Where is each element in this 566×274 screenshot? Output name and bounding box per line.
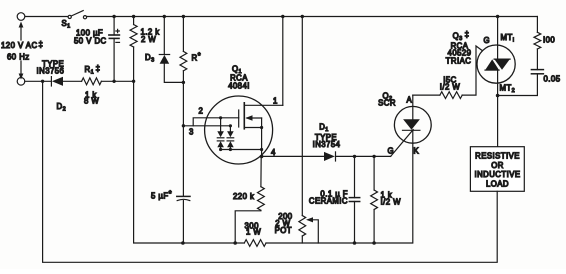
diode D1 TYPE IN3754 bbox=[324, 152, 391, 161]
label: 100uF 50 V DC bbox=[74, 29, 107, 46]
svg-text:SCR: SCR bbox=[378, 99, 396, 108]
svg-text:I/2 W: I/2 W bbox=[440, 83, 461, 92]
wire: load to bottom return rail bbox=[43, 81, 498, 262]
svg-text:RESISTIVE: RESISTIVE bbox=[475, 152, 520, 161]
capacitor 0.05 (snubber) bbox=[498, 70, 544, 96]
wire: pin 1 riser to DC+ rail bbox=[282, 17, 284, 106]
transistor Q3 RCA 40529 TRIAC circle bbox=[477, 45, 515, 83]
svg-text:TRIAC: TRIAC bbox=[446, 57, 472, 66]
node: source tap junction bbox=[260, 126, 263, 129]
diode D2 TYPE IN3756 bbox=[51, 77, 81, 86]
svg-text:220 k: 220 k bbox=[233, 192, 254, 201]
node: pin2/3 takeoff junction bbox=[182, 124, 185, 127]
label: R* bbox=[192, 52, 202, 63]
wire: rail-to-pot riser (crosses source wire) bbox=[301, 17, 303, 216]
wire: top AC wire from terminal to switch bbox=[25, 16, 68, 18]
svg-text:LOAD: LOAD bbox=[486, 179, 509, 188]
transistor Q1 channel bar bbox=[243, 103, 245, 129]
transistor Q2 SCR symbol bbox=[391, 95, 420, 243]
label: 300 1W bbox=[245, 222, 262, 237]
label: 220k bbox=[233, 192, 254, 201]
node: 0.1uF and 1k junctions on gate wire bbox=[353, 155, 376, 158]
wire: Q1 source wire (pin 4) to D1 bbox=[262, 155, 324, 157]
svg-text:0.05: 0.05 bbox=[544, 75, 561, 84]
label: 1k 1/2W bbox=[381, 191, 402, 207]
label: D2 bbox=[57, 102, 67, 113]
node: rail junction dots bbox=[112, 15, 499, 18]
transistor Q1 substrate arrow bbox=[245, 115, 261, 120]
svg-text:POT: POT bbox=[275, 226, 292, 235]
wire: 150 ohm to triac gate bbox=[462, 46, 482, 95]
svg-text:K: K bbox=[414, 147, 420, 156]
wire: top DC+ rail bbox=[87, 16, 538, 18]
label: 0.1uF CERAMIC bbox=[309, 190, 348, 206]
label: 150 1/2W bbox=[440, 76, 461, 92]
label: MT2 bbox=[500, 84, 516, 95]
label: D3 bbox=[145, 53, 155, 64]
svg-text:I00: I00 bbox=[543, 36, 555, 45]
node: gate-node top junction bbox=[182, 81, 185, 84]
svg-text:CERAMIC: CERAMIC bbox=[309, 197, 348, 206]
label: TYPE IN3756 (D2) bbox=[37, 60, 65, 76]
wire: DC- rail after R1 bbox=[101, 80, 133, 82]
resistor 300 1W (in bus) bbox=[244, 240, 266, 247]
svg-text:MTI: MTI bbox=[501, 33, 515, 44]
svg-text:3: 3 bbox=[189, 128, 194, 137]
svg-text:G: G bbox=[484, 36, 491, 45]
label: Q1 RCA 40841 bbox=[228, 65, 250, 91]
wire: rail right corner down bbox=[536, 17, 538, 33]
wire: bottom control bus bbox=[183, 242, 412, 244]
svg-text:120 V AC‡: 120 V AC‡ bbox=[1, 40, 43, 50]
load box: RESISTIVE OR INDUCTIVE LOAD bbox=[470, 147, 524, 192]
resistor 1k 1/2W (SCR gate) bbox=[371, 156, 378, 243]
resistor R* (gate charging) bbox=[180, 17, 187, 83]
svg-text:8 W: 8 W bbox=[84, 97, 99, 106]
svg-text:IN3756: IN3756 bbox=[37, 67, 65, 76]
wire: bottom AC wire (terminal to D2) bbox=[25, 80, 51, 82]
label: D1 TYPE IN3754 bbox=[313, 123, 341, 150]
resistor 150 1/2W bbox=[440, 92, 462, 99]
label: Q3 RCA 40529 TRIAC bbox=[446, 30, 472, 66]
node: bus junction dots bbox=[181, 241, 376, 245]
op-amp-style package circle Q1 RCA 40841 MOSFET bbox=[205, 96, 273, 164]
label: 1k 8W bbox=[84, 91, 99, 106]
svg-text:A: A bbox=[407, 96, 413, 105]
svg-text:60 Hz: 60 Hz bbox=[7, 53, 30, 62]
wire: Q1 source/substrate vertical to pin 4 bbox=[261, 118, 263, 156]
wire: pin 2 lead into Q1 bbox=[193, 118, 239, 126]
wire: MT2 lead down bbox=[497, 70, 499, 147]
resistor R1 1k 8W bbox=[82, 78, 102, 85]
capacitor 0.1uF ceramic bbox=[349, 156, 359, 243]
wire: MT1 lead to rail bbox=[497, 17, 499, 60]
label: 5uF* bbox=[151, 190, 172, 201]
diode pair: gate protection column 1 bbox=[217, 118, 224, 150]
node: DC- rail dots bbox=[112, 80, 135, 83]
label: 200 2W POT bbox=[275, 212, 293, 235]
source arrow down (AC source indication) bbox=[19, 61, 24, 80]
svg-text:4: 4 bbox=[271, 148, 276, 157]
wire: pin 3 lead into Q1 bbox=[183, 125, 230, 127]
svg-text:1 W: 1 W bbox=[246, 228, 261, 237]
node: junction at load-return drop bbox=[41, 80, 44, 83]
wire: DC- drop to bottom bus bbox=[134, 81, 183, 243]
label: 1.2k 2W bbox=[141, 28, 160, 45]
terminal: top AC input terminal bbox=[17, 13, 25, 21]
wire: Q1 drain lead to pin 1 bbox=[244, 104, 282, 106]
svg-text:IN3754: IN3754 bbox=[313, 140, 341, 149]
node: pin2 junction at protection diodes bbox=[219, 116, 222, 119]
label: MT1 bbox=[501, 33, 515, 44]
label: R1 bbox=[85, 64, 101, 76]
svg-text:INDUCTIVE: INDUCTIVE bbox=[474, 170, 520, 179]
node: pin 4 junction bbox=[260, 155, 264, 159]
diode D3 (zener to gate node) bbox=[159, 17, 183, 83]
label: Q2 SCR bbox=[378, 92, 396, 108]
svg-text:2 W: 2 W bbox=[141, 35, 156, 44]
node: pin3 junction at protection diodes bbox=[229, 124, 232, 127]
wire: protection diode return bar bbox=[221, 149, 262, 151]
switch S1 bbox=[68, 11, 87, 19]
svg-text:G: G bbox=[388, 147, 395, 156]
terminal: bottom AC input terminal bbox=[17, 78, 25, 86]
svg-text:1: 1 bbox=[273, 97, 278, 106]
label: 120 V AC 60 Hz bbox=[1, 40, 43, 62]
capacitor C 100uF 50VDC electrolytic bbox=[109, 17, 120, 82]
svg-text:4084I: 4084I bbox=[228, 82, 250, 91]
wire: Q1 source tap bbox=[244, 127, 261, 129]
wire: gate node vertical (R* bottom to 5uF) bbox=[182, 82, 184, 196]
node: return bar junctions bbox=[219, 148, 263, 151]
svg-text:OR: OR bbox=[491, 161, 504, 170]
source arrow up (AC source indication) bbox=[19, 22, 24, 41]
potentiometer 200 2W POT bbox=[299, 216, 306, 244]
transistor Q3 triac symbol bbox=[485, 59, 510, 70]
svg-text:I/2 W: I/2 W bbox=[381, 198, 402, 207]
resistor 220k (source load) bbox=[235, 156, 264, 243]
resistor 1.2k 2W bbox=[130, 17, 137, 82]
node: MT2 snubber junction bbox=[496, 94, 500, 98]
capacitor 5uF* (timing) bbox=[177, 196, 190, 243]
diode pair: gate protection column 2 bbox=[227, 126, 234, 150]
wire: SCR anode to 150 ohm bbox=[413, 94, 440, 96]
potentiometer wiper arrow bbox=[306, 217, 318, 243]
svg-text:50 V DC: 50 V DC bbox=[74, 37, 107, 46]
resistor 100 (snubber) bbox=[534, 32, 541, 69]
svg-text:2: 2 bbox=[199, 107, 204, 116]
transistor Q2 SCR circle bbox=[394, 106, 431, 143]
transistor Q1 gate bar bbox=[238, 110, 240, 127]
label: S1 bbox=[62, 19, 71, 30]
